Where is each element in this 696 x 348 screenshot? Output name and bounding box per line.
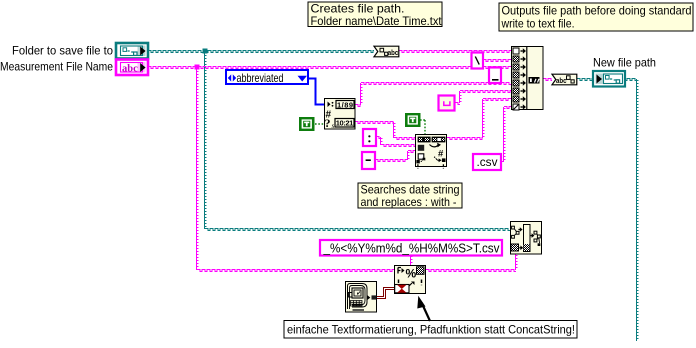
wire concat output to string-to-path (543, 79, 552, 81)
wire folder-path teal main (148, 51, 374, 53)
svg-text:1/89: 1/89 (337, 100, 353, 109)
svg-text:#: # (438, 149, 444, 160)
svg-text:write to text file.: write to text file. (501, 17, 575, 31)
comment Outputs file path (499, 3, 693, 31)
svg-text:?: ? (325, 116, 331, 130)
comment einfache Textformatierung (284, 321, 577, 339)
wire format string constant down to node (411, 255, 413, 265)
wire format-into-string output to Build Path (426, 254, 517, 272)
label Measurement File Name (0, 60, 113, 74)
string constant space (439, 96, 455, 111)
wire file-name string branch to Format Into String (195, 65, 395, 272)
enum constant abbreviated (226, 70, 308, 85)
string constant underscore (489, 68, 501, 84)
function Build Path (511, 222, 542, 255)
wire enum to date-time node (blue) (309, 79, 324, 105)
wire file-name string main (148, 67, 511, 69)
svg-text:abc: abc (388, 48, 399, 57)
svg-text:.csv: .csv (477, 155, 498, 169)
wire folder-path teal branch to Build Path (203, 49, 511, 231)
wire path-to-string output to concat row1 (399, 51, 511, 53)
indicator New file path (path indicator terminal) (593, 71, 625, 87)
label New file path (593, 56, 656, 70)
svg-text:s: s (332, 122, 335, 130)
svg-text:Folder name\Date Time.txt: Folder name\Date Time.txt (311, 14, 443, 28)
annotation arrow (417, 296, 430, 321)
wire time string to Search-Replace input (355, 122, 415, 140)
string constant backslash (472, 53, 484, 69)
string constant colon (363, 129, 376, 146)
string constant dash (362, 152, 375, 169)
svg-text:abc: abc (556, 76, 567, 85)
wire boolean T2 dotted (420, 120, 425, 134)
svg-text:Outputs file path before doing: Outputs file path before doing standard (502, 4, 692, 18)
label Folder to save file to (12, 44, 113, 58)
svg-text:New file path: New file path (593, 56, 656, 70)
wire boolean T1 dotted (315, 123, 324, 125)
boolean constant T1 (299, 117, 315, 131)
wire search-replace output to concat row7 (447, 99, 511, 140)
svg-text:einfache Textformatierung, Pfa: einfache Textformatierung, Pfadfunktion … (287, 323, 575, 337)
string constant format string (320, 240, 502, 256)
svg-text:abc: abc (122, 64, 138, 75)
function String To Path (552, 74, 577, 85)
svg-text:10:21: 10:21 (336, 119, 354, 128)
comment Searches date string (358, 183, 462, 210)
svg-text:Measurement File Name: Measurement File Name (0, 60, 113, 74)
function Path To String (374, 46, 399, 57)
wire backslash constant to concat row2 (483, 60, 511, 62)
function This VI path (terminal icon) (346, 282, 377, 313)
wire space constant to concat row6 (455, 91, 511, 105)
function Get Date/Time String (325, 99, 356, 131)
wire dash constant to replace input (375, 151, 415, 162)
wire new path teal to indicator and down (577, 79, 638, 342)
boolean constant T2 (405, 113, 421, 127)
svg-text:and replaces : with -: and replaces : with - (361, 195, 457, 209)
comment Creates file path (308, 2, 442, 29)
string constant .csv (473, 154, 501, 170)
svg-text:Folder to save file to: Folder to save file to (12, 44, 113, 58)
function Format Into String (395, 266, 426, 294)
svg-text:abbreviated: abbreviated (237, 71, 284, 85)
control Measurement File Name (string control terminal) (116, 60, 148, 76)
function Search and Replace String (416, 135, 447, 169)
wire colon constant to search input (376, 137, 415, 147)
wire maroon refnum to format node (377, 289, 395, 298)
svg-text:_%<%Y%m%d_%H%M%S>T.csv: _%<%Y%m%d_%H%M%S>T.csv (323, 241, 500, 256)
function Concatenate Strings (512, 46, 544, 110)
control Folder to save file to (path control terminal) (116, 43, 148, 59)
wire .csv constant to concat row8 (501, 107, 511, 163)
wire date string to concat row5 (355, 83, 511, 107)
svg-text:%: % (406, 267, 417, 281)
